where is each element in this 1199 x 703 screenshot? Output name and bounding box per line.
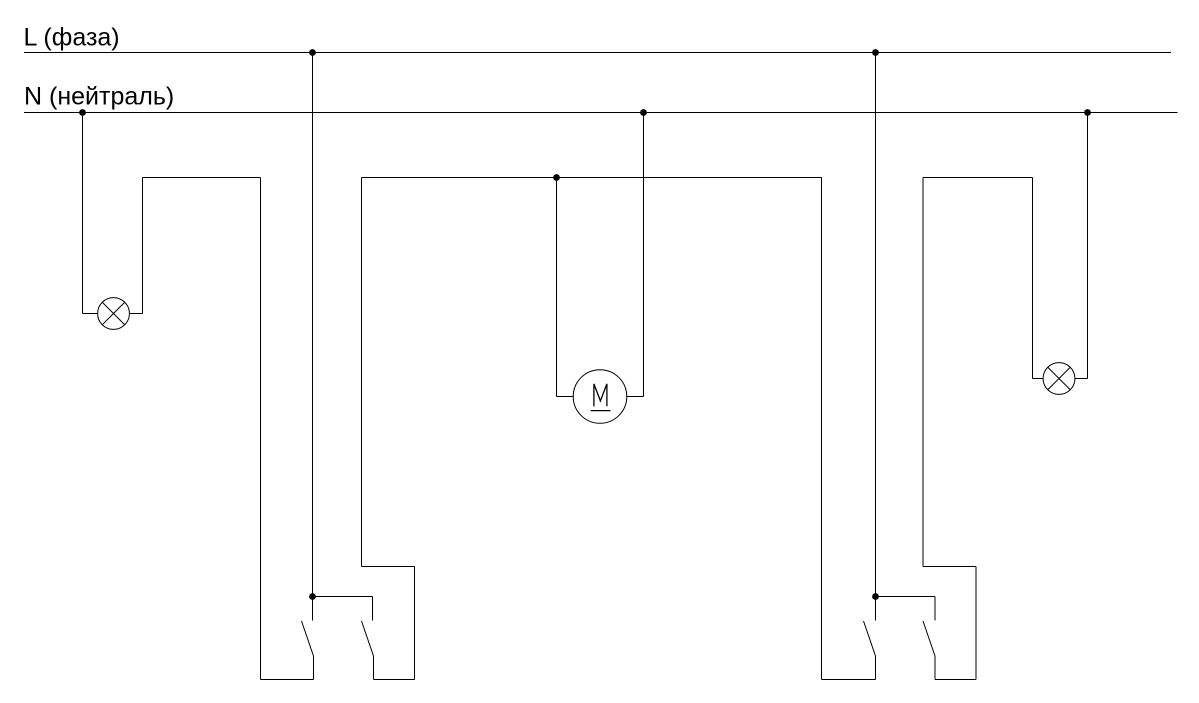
- wire switch S2 pole 2 step top: [923, 566, 976, 568]
- wire lamp 1 right lead: [129, 313, 142, 315]
- wire fan branch top run: [362, 177, 822, 179]
- wire lamp 2 top run: [923, 177, 1033, 179]
- node switch S1 common junction: [309, 593, 316, 600]
- wire L phase bus: [24, 52, 1171, 54]
- motor M fan: [573, 370, 627, 424]
- wire L to switch S2 common: [875, 53, 877, 621]
- lamp EL2: [1043, 363, 1075, 395]
- wire switch S2 common to pole 2: [876, 596, 936, 598]
- node switch S2 common junction: [872, 593, 879, 600]
- wire switch S2 pole 1 stub: [875, 656, 877, 680]
- wire switch S1 pole 2 to fan branch: [361, 178, 363, 567]
- lamp EL1: [98, 298, 130, 330]
- wire lamp 1 left lead: [83, 313, 98, 315]
- wire switch S1 pole 2 bottom run: [374, 679, 415, 681]
- wire lamp 2 drop: [1032, 178, 1034, 379]
- wire fan motor left drop: [556, 178, 558, 397]
- wire lamp 2 right lead: [1075, 378, 1088, 380]
- wire switch S1 pole 2 step top: [362, 566, 415, 568]
- wire switch S2 pole 1 bottom run: [822, 679, 876, 681]
- switch S1 pole 2 blade: [362, 621, 374, 656]
- wire N neutral bus: [24, 112, 1178, 114]
- switch S2 pole 2 blade: [923, 621, 935, 656]
- wire lamp 1 branch down to switch S1: [260, 178, 262, 680]
- wire switch S1 pole 1 stub: [313, 656, 315, 680]
- wire fan motor right lead: [627, 396, 644, 398]
- wire switch S1 common to pole 2: [313, 596, 373, 598]
- svg-text:L (фаза): L (фаза): [24, 24, 120, 52]
- switch S1 pole 1 blade: [302, 621, 314, 656]
- node junction on N bus feeding motor: [640, 109, 647, 116]
- svg-text:N (нейтраль): N (нейтраль): [24, 83, 174, 111]
- wire N to motor vertical: [643, 113, 645, 397]
- wire lamp 2 left lead: [1033, 378, 1044, 380]
- wire switch S1 pole 2 fixed contact: [372, 597, 374, 621]
- wire lamp 1 top run: [143, 177, 261, 179]
- wire switch S2 pole 2 bottom run: [935, 679, 976, 681]
- wire switch S2 pole 2 fixed contact: [934, 597, 936, 621]
- node junction on fan top run: [553, 174, 560, 181]
- wire N to lamp 1 vertical: [82, 113, 84, 314]
- wire switch S2 pole 2 to lamp 2 branch: [922, 178, 924, 567]
- node junction on L bus feeding switch S2: [872, 49, 879, 56]
- wire fan branch right drop to switch S2: [821, 178, 823, 680]
- wire lamp 1 riser: [142, 178, 144, 314]
- switch S2 pole 1 blade: [864, 621, 876, 656]
- wire N to lamp 2 vertical: [1087, 113, 1089, 379]
- wire L to switch S1 common: [312, 53, 314, 621]
- wire switch S1 pole 1 bottom run: [261, 679, 314, 681]
- node junction on N bus feeding lamp 1: [79, 109, 86, 116]
- wire switch S2 pole 2 step riser: [975, 567, 977, 680]
- node junction on L bus feeding switch S1: [309, 49, 316, 56]
- wire switch S2 pole 2 stub: [934, 656, 936, 680]
- wire switch S1 pole 2 step riser: [414, 567, 416, 680]
- wire fan motor left lead: [557, 396, 574, 398]
- wire switch S1 pole 2 stub: [373, 656, 375, 680]
- node junction on N bus feeding lamp 2: [1084, 109, 1091, 116]
